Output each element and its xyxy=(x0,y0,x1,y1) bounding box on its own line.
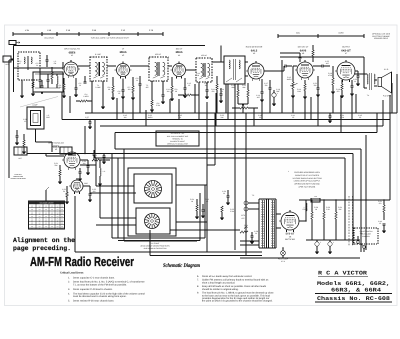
svg-text:9.1MC: 9.1MC xyxy=(96,86,102,89)
svg-text:V8: V8 xyxy=(289,235,291,238)
IF transformer T2B xyxy=(196,58,212,82)
svg-text:10M: 10M xyxy=(297,90,301,93)
svg-text:10: 10 xyxy=(79,84,81,87)
svg-text:2.2M: 2.2M xyxy=(156,104,160,107)
capacitor C17 xyxy=(269,87,272,89)
svg-text:330: 330 xyxy=(265,84,268,87)
tube V5 6AV6 xyxy=(297,62,313,78)
resistor am3 xyxy=(92,159,99,161)
svg-text:66R3, & 66R4: 66R3, & 66R4 xyxy=(331,287,382,294)
capacitor C am2 xyxy=(87,165,90,167)
svg-text:9.1 MC: 9.1 MC xyxy=(95,53,101,56)
output transformer T4 xyxy=(367,74,368,84)
wire return right xyxy=(365,135,367,250)
resistor R3 under V1 xyxy=(63,84,65,91)
resistor under V5 xyxy=(304,84,306,91)
svg-text:6K6-GT: 6K6-GT xyxy=(341,49,351,52)
dial cord dimension line left xyxy=(13,33,163,35)
electrolytic C18 xyxy=(272,93,276,97)
capacitors on buses xyxy=(329,115,332,117)
ground front end xyxy=(40,91,44,93)
svg-text:LOOP: LOOP xyxy=(33,104,39,107)
svg-text:6AV6: 6AV6 xyxy=(300,49,307,52)
power transformer T5 xyxy=(258,199,260,248)
wire bus 4 xyxy=(115,132,377,134)
tube V4 6AL5 xyxy=(248,63,264,79)
svg-text:V7: V7 xyxy=(345,52,347,55)
svg-text:.05: .05 xyxy=(259,116,261,119)
svg-text:.01: .01 xyxy=(136,79,138,82)
wire plate V6 xyxy=(363,57,365,74)
dial cord dimension line right xyxy=(278,35,364,37)
svg-text:100: 100 xyxy=(83,162,86,165)
volume control R15 xyxy=(292,82,294,89)
resistor R8 xyxy=(151,100,153,106)
wire mid vertical 4 xyxy=(245,113,247,255)
resistor R7 xyxy=(132,86,134,93)
cluster after V3 xyxy=(198,82,200,113)
svg-text:R C A VICTOR: R C A VICTOR xyxy=(318,270,368,277)
capacitor C5 xyxy=(84,81,87,83)
svg-text:Dress capacitor C-29 lead to c: Dress capacitor C-29 lead to chassis. xyxy=(73,288,113,291)
wire bus B+ 1 xyxy=(85,112,397,114)
svg-text:100: 100 xyxy=(167,90,170,93)
resistor R14 xyxy=(240,107,248,109)
svg-text:INPUT SIGNAL AM: INPUT SIGNAL AM xyxy=(48,142,64,145)
note box oscillator xyxy=(156,131,199,146)
svg-text:420: 420 xyxy=(93,190,96,193)
svg-text:470: 470 xyxy=(337,90,340,93)
capacitor C20 top xyxy=(299,57,302,59)
svg-text:.05: .05 xyxy=(379,222,381,225)
dial pointer mark xyxy=(9,41,16,45)
IF transformer T2 xyxy=(149,57,168,81)
svg-text:68: 68 xyxy=(175,90,177,93)
extra vertical taps xyxy=(69,96,71,113)
svg-text:6.: 6. xyxy=(197,275,199,278)
scan scratch line xyxy=(20,97,58,108)
svg-text:Dress all a-c leads away from: Dress all a-c leads away from vehicular … xyxy=(202,275,252,278)
capacitor C16 xyxy=(261,91,264,93)
svg-text:P-M SPKR: P-M SPKR xyxy=(383,95,392,98)
svg-text:page preceding.: page preceding. xyxy=(13,245,71,252)
terminal board 2 xyxy=(60,147,72,154)
svg-text:SPEAKER FIELD: SPEAKER FIELD xyxy=(374,37,389,40)
band switch S2 rear xyxy=(136,208,170,234)
svg-text:3.2 Ω: 3.2 Ω xyxy=(384,68,389,71)
svg-text:FIELD: FIELD xyxy=(303,208,309,211)
ground V1 xyxy=(62,95,66,97)
resistor left1 xyxy=(23,140,25,146)
wire return 1 xyxy=(115,148,361,150)
tube V1 6BE6 xyxy=(64,62,78,76)
svg-text:V6: V6 xyxy=(302,52,304,55)
svg-text:AM-FM Radio Receiver: AM-FM Radio Receiver xyxy=(30,254,134,269)
svg-text:2.: 2. xyxy=(68,281,70,284)
svg-text:.005: .005 xyxy=(256,96,259,99)
svg-text:56: 56 xyxy=(63,190,65,193)
filter resistors xyxy=(311,212,313,219)
svg-text:5Y3-GT: 5Y3-GT xyxy=(286,233,295,236)
wire bottom left connect xyxy=(74,196,76,252)
svg-text:.05: .05 xyxy=(292,116,294,119)
svg-text:100: 100 xyxy=(205,84,208,87)
svg-text:OPERATIONS WITH TONE AND: OPERATIONS WITH TONE AND xyxy=(294,183,320,186)
capacitor C24 xyxy=(351,85,354,87)
svg-text:LISTED WITH OPTICAL SUPPLY.: LISTED WITH OPTICAL SUPPLY. xyxy=(294,180,321,183)
svg-text:455 KC: 455 KC xyxy=(155,53,162,56)
coupling C22 xyxy=(321,65,323,68)
svg-text:100: 100 xyxy=(124,116,127,119)
svg-text:7.: 7. xyxy=(197,279,199,282)
wire above table xyxy=(45,190,47,201)
svg-text:4.: 4. xyxy=(68,292,70,295)
svg-text:330: 330 xyxy=(314,84,317,87)
svg-text:OUTPUT: OUTPUT xyxy=(342,46,351,49)
transformer T3 ratio detector xyxy=(224,56,245,84)
svg-text:2ND I-F: 2ND I-F xyxy=(176,48,183,51)
capacitor C13 xyxy=(220,93,223,95)
svg-text:RATIO DETECTOR: RATIO DETECTOR xyxy=(246,46,263,49)
svg-text:5.: 5. xyxy=(68,300,70,303)
svg-text:455: 455 xyxy=(146,86,149,89)
svg-text:3 5/8: 3 5/8 xyxy=(92,29,96,32)
junction dots bus xyxy=(311,199,312,200)
svg-text:T1, as near the bottom of the: T1, as near the bottom of the FM shelf a… xyxy=(73,284,127,287)
wire bus AVC xyxy=(100,125,383,127)
wire left edge xyxy=(8,60,10,178)
wire return 3 xyxy=(95,157,345,159)
svg-text:1MEG: 1MEG xyxy=(148,116,153,119)
svg-text:T-5: T-5 xyxy=(252,194,254,197)
resistor R10 xyxy=(216,84,218,90)
electrolytic C31 xyxy=(328,242,332,246)
svg-text:the point at which it is groun: the point at which it is grounded to the… xyxy=(202,300,273,303)
resistor R2 xyxy=(32,82,34,88)
wire right drop xyxy=(389,120,391,196)
svg-text:.01: .01 xyxy=(255,232,257,235)
svg-text:must be dressed next to chassi: must be dressed next to chassis along fr… xyxy=(73,295,127,298)
svg-text:6BA6: 6BA6 xyxy=(176,51,183,54)
cluster mid components xyxy=(196,205,198,211)
svg-text:V5: V5 xyxy=(253,52,255,55)
wire switch right xyxy=(176,184,207,186)
wire T3 xyxy=(221,61,224,63)
svg-text:FEATURES ADDRESSED WITH: FEATURES ADDRESSED WITH xyxy=(294,171,320,174)
capacitor C4 under V1 xyxy=(75,87,78,89)
capacitor C19 coupling xyxy=(284,65,286,68)
wire osc to switch xyxy=(96,185,134,187)
IF transformer T1 xyxy=(90,57,107,81)
svg-text:Dress capacitor C-1 near chass: Dress capacitor C-1 near chassis base. xyxy=(73,276,115,279)
svg-text:V4: V4 xyxy=(178,54,180,57)
svg-text:1.: 1. xyxy=(68,276,70,279)
antenna terminal box xyxy=(3,56,11,62)
wire rectifier xyxy=(276,213,281,215)
oscillator tank box xyxy=(33,72,63,92)
svg-text:1 MEG: 1 MEG xyxy=(83,95,89,98)
svg-text:1.5: 1.5 xyxy=(24,120,26,123)
resistor R4 xyxy=(80,100,87,102)
capacitor C8 under V2 xyxy=(122,89,125,91)
svg-text:.01: .01 xyxy=(36,64,38,67)
capacitor C21 xyxy=(317,87,320,89)
svg-text:RECTIFIER: RECTIFIER xyxy=(285,238,296,241)
svg-text:150: 150 xyxy=(128,88,131,91)
FM antenna coil L1 xyxy=(18,52,40,80)
wire return 2 xyxy=(27,153,353,155)
resistor cathode V6 xyxy=(341,84,343,90)
capacitor C11 xyxy=(162,94,165,96)
svg-text:T-4: T-4 xyxy=(367,94,369,97)
right psu components xyxy=(383,205,385,212)
svg-text:should be similar to original: should be similar to original wiring. xyxy=(202,288,239,291)
wire antenna vertical xyxy=(13,46,15,93)
svg-text:5MF: 5MF xyxy=(276,90,279,93)
svg-text:470: 470 xyxy=(379,202,382,205)
svg-text:Dress resistor R-26 near chass: Dress resistor R-26 near chassis base. xyxy=(73,300,115,303)
wire mid vertical 2 xyxy=(214,113,216,165)
cluster under V4 resistors xyxy=(237,90,239,97)
AC input plug xyxy=(244,201,248,205)
tone control xyxy=(240,231,248,233)
wire vol to grid xyxy=(293,65,297,67)
svg-text:L-6: L-6 xyxy=(103,170,106,173)
svg-text:Schematic Diagram: Schematic Diagram xyxy=(163,263,201,269)
svg-text:.05: .05 xyxy=(118,92,120,95)
svg-text:.01: .01 xyxy=(221,90,223,93)
loop antenna xyxy=(27,107,44,129)
svg-text:DIAL DRUM: DIAL DRUM xyxy=(44,37,54,40)
filter choke xyxy=(311,198,320,202)
wire mid vertical 3 xyxy=(234,84,236,250)
ground left mid xyxy=(15,142,19,144)
resistor R1 xyxy=(51,72,53,79)
svg-text:455 KC: 455 KC xyxy=(201,54,207,57)
svg-text:DIAL: DIAL xyxy=(296,31,300,34)
svg-text:V3: V3 xyxy=(122,54,124,57)
svg-text:3 1/2: 3 1/2 xyxy=(121,29,125,32)
resistor under V3 xyxy=(171,86,173,93)
tube V2 6BA6 xyxy=(117,64,130,77)
svg-text:Chassis No. RC-608: Chassis No. RC-608 xyxy=(317,295,391,302)
svg-text:2 7/8: 2 7/8 xyxy=(149,29,153,32)
band switch S1 front xyxy=(134,174,172,203)
osc coil xyxy=(100,168,101,176)
shield dashed lines xyxy=(348,196,350,246)
svg-text:2.2M: 2.2M xyxy=(230,210,234,213)
capacitor under V3 xyxy=(184,87,187,89)
wire loop to tube xyxy=(36,141,53,143)
resistor plate V5 xyxy=(312,50,314,56)
electrolytic C30 xyxy=(315,242,319,246)
tube V3 6BA6 xyxy=(173,64,186,77)
svg-text:8.: 8. xyxy=(197,285,199,288)
svg-text:68: 68 xyxy=(108,88,110,91)
tube V8 5Y3-GT xyxy=(281,212,299,230)
svg-text:CORD: CORD xyxy=(338,31,344,34)
capacitor cluster am xyxy=(93,153,96,155)
svg-text:6AL5: 6AL5 xyxy=(251,49,258,52)
svg-text:INPUT SIGNAL FM: INPUT SIGNAL FM xyxy=(64,48,80,51)
svg-text:.01: .01 xyxy=(223,192,225,195)
svg-text:TURN DIAL CORD 3 1/2 TURNS ARO: TURN DIAL CORD 3 1/2 TURNS AROUND SHAFT xyxy=(91,37,129,40)
svg-text:V2: V2 xyxy=(55,148,57,151)
tube V2am 6BE6 xyxy=(64,152,80,168)
svg-text:6BA6: 6BA6 xyxy=(120,51,127,54)
bus taps xyxy=(91,107,93,113)
wire front end xyxy=(14,67,64,69)
on-off switch box xyxy=(354,228,378,244)
svg-text:CAPACITOR OF VOLT-RATED: CAPACITOR OF VOLT-RATED xyxy=(295,174,320,177)
tube V6 6K6-GT xyxy=(337,62,355,80)
wire speaker xyxy=(374,79,377,81)
wire mid vertical 1 xyxy=(206,102,208,252)
terminal board xyxy=(14,147,27,155)
ground ant xyxy=(20,95,24,97)
svg-text:short a lead length as practic: short a lead length as practical. xyxy=(202,281,235,284)
svg-text:47: 47 xyxy=(19,62,21,65)
components under osc xyxy=(66,192,68,197)
svg-text:ANT: ANT xyxy=(18,157,21,160)
speaker LS1 xyxy=(378,78,382,87)
svg-text:*: * xyxy=(288,170,289,173)
svg-text:.05: .05 xyxy=(188,84,190,87)
band switch shield xyxy=(128,168,176,236)
svg-text:V1: V1 xyxy=(71,54,73,57)
wire top bus right xyxy=(280,56,364,58)
tube V osc socket xyxy=(71,180,83,192)
capacitor mid2 xyxy=(227,195,230,197)
svg-text:1MEG: 1MEG xyxy=(287,78,292,81)
ground T1 xyxy=(101,106,105,108)
capacitor C25 tone xyxy=(357,75,360,77)
voltage chart table xyxy=(29,201,65,229)
capacitor C9 xyxy=(139,83,142,85)
wire am tube feeds xyxy=(46,155,64,157)
svg-text:6BE6: 6BE6 xyxy=(69,52,76,55)
svg-text:420: 420 xyxy=(86,118,89,121)
pilot lamp xyxy=(281,251,286,256)
svg-text:9.: 9. xyxy=(197,292,199,295)
capacitor C1 xyxy=(46,59,49,61)
svg-text:.02: .02 xyxy=(359,116,361,119)
wire T2 down xyxy=(151,81,153,100)
resistor grid V6 xyxy=(332,78,334,85)
svg-text:DET-1ST AF: DET-1ST AF xyxy=(298,46,309,49)
wire bus B+ 2 xyxy=(62,119,390,121)
svg-text:OPER. NOT SHOWN.: OPER. NOT SHOWN. xyxy=(298,186,316,189)
svg-text:4 3/4: 4 3/4 xyxy=(25,29,29,32)
svg-text:VOLTAGE SHOULD HOLD BOTTOM: VOLTAGE SHOULD HOLD BOTTOM xyxy=(292,177,322,180)
svg-text:.01: .01 xyxy=(354,80,356,83)
capacitor left1 xyxy=(16,135,19,137)
switch trunk wires xyxy=(111,154,113,239)
wire psu bottom xyxy=(240,257,360,259)
wire top bus left xyxy=(14,45,206,47)
svg-text:Critical Lead Dress: Critical Lead Dress xyxy=(60,272,84,275)
extra interstage wires xyxy=(78,65,90,67)
svg-text:3.: 3. xyxy=(68,288,70,291)
wire T1 to bus xyxy=(91,81,93,113)
components under V2am xyxy=(59,170,61,176)
svg-text:.05: .05 xyxy=(206,200,208,203)
svg-text:.005: .005 xyxy=(325,62,328,65)
svg-text:2 1/8: 2 1/8 xyxy=(66,29,70,32)
resistor R6 under V2 xyxy=(112,86,114,93)
svg-text:ANT: ANT xyxy=(5,63,8,66)
svg-text:1 5/8: 1 5/8 xyxy=(47,29,51,32)
wire V4 to V5 xyxy=(264,70,284,72)
svg-text:Alignment on the: Alignment on the xyxy=(13,237,75,244)
switch S4 contacts xyxy=(357,241,360,244)
svg-text:VOLTAGE CHART: VOLTAGE CHART xyxy=(40,202,54,205)
capacitor C2 xyxy=(41,85,44,87)
